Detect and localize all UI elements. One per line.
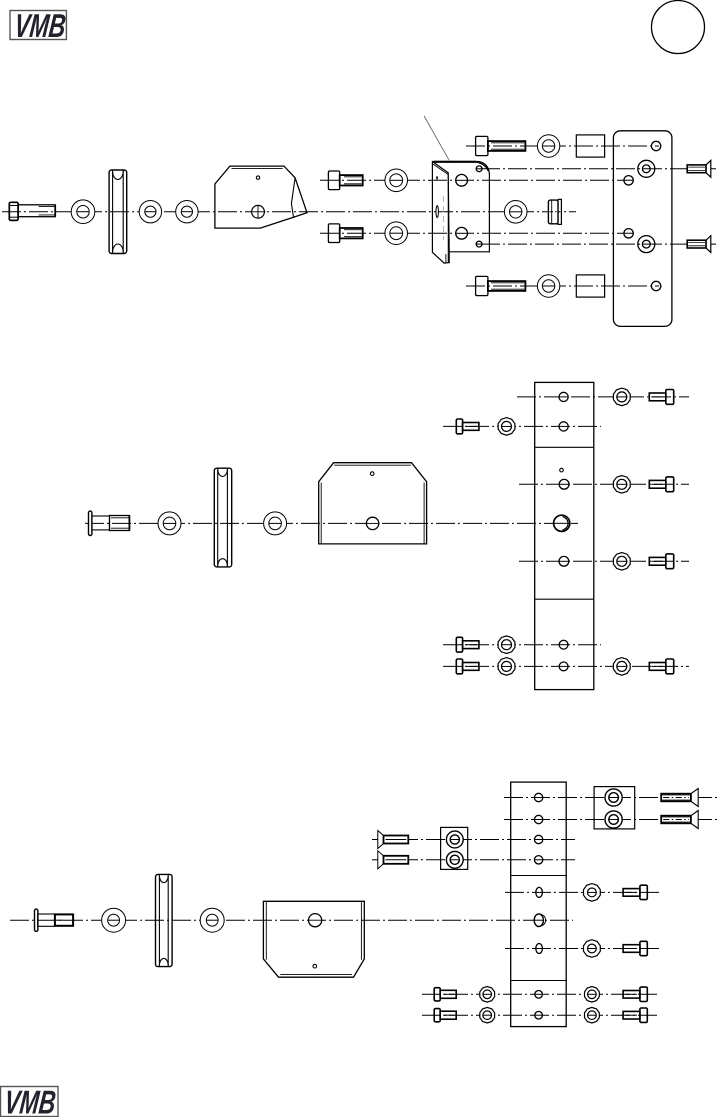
hex nut N1 [548, 199, 561, 224]
svg-text:VMB: VMB [3, 1085, 58, 1117]
washer W9 [158, 512, 181, 535]
washer in L lower [446, 851, 463, 868]
hole 7 in C3 [535, 991, 543, 999]
slot hole 6 in C3 [536, 944, 543, 954]
center line assembly 1 lower bolt row [320, 232, 633, 234]
hex washer row 7 left [480, 987, 495, 1003]
spacer block K2 [576, 275, 604, 297]
center line assembly 3 row 7 [422, 993, 660, 995]
washer W11 [102, 908, 126, 932]
hex screw row 7 left [434, 988, 456, 1001]
pulley P2 [214, 468, 231, 567]
hex screw row 7 right [623, 987, 647, 1001]
washer W3 [176, 201, 198, 223]
center line assembly 1 upper bolt row [320, 179, 633, 181]
center line assembly 2 row E [519, 560, 689, 562]
hex screw row C right [649, 477, 673, 492]
counterbored hole D in C2 [554, 515, 570, 531]
center line assembly 3 row 1 [504, 797, 717, 799]
hex screw row 5 [623, 885, 647, 899]
flat head screw F1 [687, 160, 711, 177]
center line assembly 2 row A [517, 396, 689, 398]
center line assembly 1 top screw row [466, 145, 659, 147]
hex washer row B left [498, 418, 515, 436]
hole 4 in C3 [534, 856, 542, 864]
hex washer row C right [613, 476, 630, 494]
hex washer row 8 left [480, 1007, 495, 1023]
flat head screw row 1 [661, 789, 698, 807]
center line assembly 2 row C [519, 483, 689, 485]
hex screw row A right [649, 390, 673, 405]
VMB logo top-left [10, 8, 68, 45]
retainer block TR [594, 787, 635, 829]
hole 8 in C3 [535, 1011, 543, 1019]
shoulder bolt assembly 2 [89, 511, 130, 535]
hole F in C2 [559, 640, 568, 649]
center line assembly 1 bottom screw row [466, 285, 659, 287]
hole 1 in C3 [534, 793, 542, 801]
socket screw S3 [476, 276, 526, 295]
hex screw row B left [456, 419, 479, 434]
hex screw row G right [649, 659, 673, 674]
hole 2 in C3 [534, 815, 542, 823]
svg-text:VMB: VMB [13, 8, 68, 45]
pivot plate M2 [319, 463, 427, 544]
pulley P3 [156, 874, 173, 966]
washer W5 [385, 222, 408, 245]
slide column plate C2 [535, 382, 594, 689]
washer W7 [537, 135, 559, 157]
center line assembly 3 row 4 [372, 859, 575, 861]
spacer block K1 [576, 135, 604, 157]
hex screw row 8 left [434, 1009, 456, 1022]
slot hole main in C3 [534, 914, 546, 927]
retainer block L [441, 827, 468, 869]
center line assembly 1 main axis [2, 211, 576, 213]
center line assembly 3 row 3 [372, 839, 575, 841]
hole 3 in C3 [534, 835, 542, 843]
center line assembly 2 main axis [85, 522, 578, 524]
hole G in C2 [559, 662, 568, 671]
hex bolt assembly 1 [9, 202, 55, 220]
center line assembly 2 row B [443, 425, 601, 427]
hex washer row E right [613, 553, 630, 571]
flat head screw row 3 [378, 831, 409, 849]
hex washer row 5 [584, 884, 601, 902]
flat head screw F2 [687, 236, 711, 253]
hex washer row G left [498, 658, 515, 676]
center line assembly 3 row 2 [504, 819, 717, 821]
hex washer row G right [613, 658, 630, 676]
hole A in C2 [559, 392, 568, 401]
slot hole 5 in C3 [536, 887, 543, 897]
washer in TR lower [605, 811, 622, 828]
washer W10 [264, 512, 287, 535]
washer W12 [200, 908, 224, 932]
hex washer row 8 right [585, 1007, 600, 1023]
hex washer row 6 [584, 940, 601, 958]
hex washer row F left [498, 636, 515, 654]
center line assembly 3 main axis [10, 919, 573, 921]
socket screw S1a [328, 171, 362, 190]
flat head screw row 2 [661, 811, 698, 829]
pulley P1 [109, 170, 127, 254]
hex washer row A right [613, 388, 630, 406]
hole B in C2 [559, 422, 568, 431]
revision circle top-right [652, 1, 705, 54]
leader line to angle bracket [424, 116, 449, 160]
shoulder bolt assembly 3 [35, 909, 74, 931]
VMB logo bottom-left [1, 1085, 59, 1117]
center line assembly 3 row 6 [505, 948, 660, 950]
hex washer row 7 right [585, 987, 600, 1003]
hole E in C2 [559, 556, 569, 566]
hex screw row E right [649, 554, 673, 569]
slide column plate C3 [511, 782, 567, 1027]
center line assembly 1 upper flat-screw row [481, 168, 717, 170]
flat head screw row 4 [378, 851, 409, 869]
angle bracket A1 [432, 162, 489, 264]
pilot hole in C2 [560, 468, 564, 472]
washer W4 [385, 169, 408, 192]
washer in L upper [446, 831, 463, 848]
hex screw row F left [456, 637, 479, 652]
socket screw S2 [476, 136, 526, 155]
washer W1 [71, 200, 95, 224]
center line assembly 1 lower flat-screw row [481, 243, 717, 245]
washer W8 [537, 275, 559, 297]
bracket plate B1 [215, 166, 307, 228]
center line assembly 3 row 8 [422, 1014, 660, 1016]
hex screw row G left [456, 659, 479, 674]
mounting plate PL1 [613, 131, 672, 327]
washer W6 [504, 201, 527, 224]
center line assembly 2 row F [443, 644, 601, 646]
washer W2 [139, 201, 161, 223]
bracket plate M3 [263, 901, 364, 977]
washer in TR upper [605, 789, 622, 806]
hex screw row 6 [623, 941, 647, 955]
hole C in C2 [559, 479, 569, 489]
center line assembly 3 row 5 [505, 891, 660, 893]
hex screw row 8 right [623, 1008, 647, 1022]
socket screw S1b [328, 224, 362, 243]
center line assembly 2 row G [443, 665, 689, 667]
